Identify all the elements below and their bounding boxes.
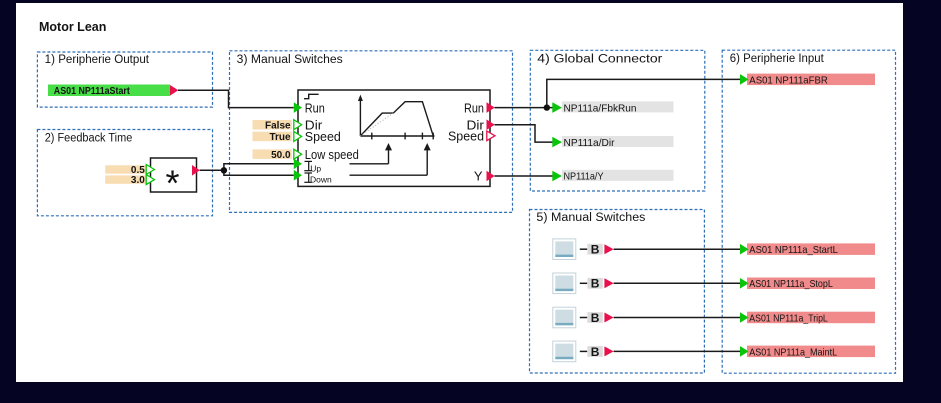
svg-text:Motor Lean: Motor Lean	[39, 20, 106, 34]
svg-text:5) Manual Switches: 5) Manual Switches	[536, 212, 645, 224]
svg-text:Down: Down	[310, 174, 332, 184]
svg-text:4) Global Connector: 4) Global Connector	[537, 53, 662, 65]
svg-text:AS01 NP111a_StopL: AS01 NP111a_StopL	[749, 278, 833, 290]
svg-text:Run: Run	[305, 100, 325, 115]
svg-text:Low speed: Low speed	[305, 147, 359, 162]
svg-text:3) Manual Switches: 3) Manual Switches	[237, 54, 343, 66]
svg-text:*: *	[166, 162, 180, 203]
svg-text:2) Feedback Time: 2) Feedback Time	[45, 132, 133, 144]
svg-text:NP111a/Y: NP111a/Y	[564, 171, 604, 183]
svg-text:B: B	[591, 345, 600, 359]
svg-text:False: False	[265, 120, 291, 131]
svg-text:NP111a/Dir: NP111a/Dir	[564, 137, 615, 149]
svg-text:AS01 NP111aFBR: AS01 NP111aFBR	[749, 74, 828, 86]
svg-text:6) Peripherie Input: 6) Peripherie Input	[730, 53, 825, 65]
svg-text:AS01 NP111a_StartL: AS01 NP111a_StartL	[749, 244, 838, 256]
svg-text:Speed: Speed	[448, 129, 484, 144]
svg-text:Run: Run	[464, 100, 484, 115]
svg-text:AS01 NP111a_MaintL: AS01 NP111a_MaintL	[749, 346, 837, 358]
svg-text:B: B	[591, 311, 600, 325]
svg-text:Up: Up	[310, 163, 321, 173]
svg-text:3.0: 3.0	[131, 175, 145, 186]
svg-text:NP111a/FbkRun: NP111a/FbkRun	[564, 102, 637, 114]
svg-text:Y: Y	[474, 168, 483, 183]
svg-text:AS01 NP111aStart: AS01 NP111aStart	[54, 86, 131, 97]
svg-text:B: B	[591, 277, 600, 291]
svg-text:Speed: Speed	[305, 129, 341, 144]
svg-text:True: True	[269, 132, 291, 143]
svg-text:1) Peripherie Output: 1) Peripherie Output	[45, 54, 150, 66]
svg-text:B: B	[591, 243, 600, 257]
svg-text:AS01 NP111a_TripL: AS01 NP111a_TripL	[749, 312, 828, 324]
svg-text:50.0: 50.0	[271, 150, 291, 161]
